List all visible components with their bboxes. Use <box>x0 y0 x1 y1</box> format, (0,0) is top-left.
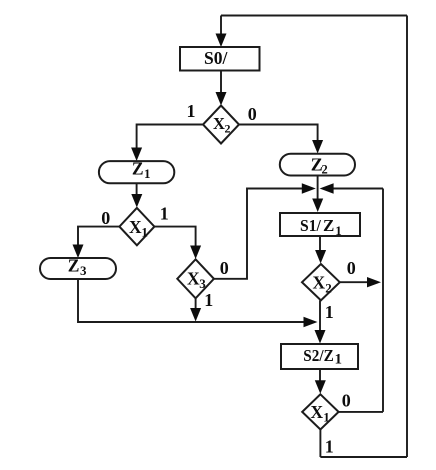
wire: entry into S0 <box>220 16 222 37</box>
svg-text:2: 2 <box>325 280 332 295</box>
output oval Z1 <box>99 161 174 183</box>
arrowhead into S2 <box>315 330 326 344</box>
arrowhead into decision X1 <box>131 194 142 208</box>
svg-text:1: 1 <box>204 290 213 310</box>
arrowhead into Z2 <box>312 140 323 154</box>
svg-text:0: 0 <box>220 258 229 278</box>
wire: X2 branch 1 to Z1 <box>137 125 203 151</box>
svg-text:3: 3 <box>80 263 87 278</box>
decision diamond X2 lower <box>302 264 340 300</box>
svg-text:1: 1 <box>335 223 342 238</box>
svg-text:2: 2 <box>225 122 231 136</box>
svg-text:2: 2 <box>322 163 328 177</box>
svg-text:1: 1 <box>160 204 169 224</box>
svg-text:0: 0 <box>342 391 351 411</box>
svg-text:Z: Z <box>132 159 144 179</box>
wire: X1 branch 0 to right join <box>339 411 383 413</box>
svg-text:S0/: S0/ <box>204 48 228 68</box>
svg-text:0: 0 <box>248 104 257 124</box>
wire: right join horizontal <box>332 188 383 190</box>
svg-text:1: 1 <box>187 101 196 121</box>
arrowhead right join pointing left <box>320 183 334 193</box>
svg-text:Z: Z <box>323 216 334 235</box>
svg-text:X: X <box>213 114 225 133</box>
wire: X1 branch 1 to X3 decision <box>154 227 195 248</box>
arrowhead left join pointing right <box>302 183 316 193</box>
state box S1 <box>280 213 360 236</box>
svg-text:0: 0 <box>101 208 110 228</box>
svg-text:Z: Z <box>68 256 80 276</box>
arrowhead into Z3 <box>73 245 84 259</box>
arrowhead into decision X2 lower <box>315 250 326 264</box>
decision diamond X1 lower <box>302 394 338 429</box>
wire: X1 bottom exit down <box>319 430 321 458</box>
output oval Z3 <box>40 258 116 279</box>
svg-text:X: X <box>129 217 142 237</box>
svg-text:1: 1 <box>323 409 330 424</box>
decision diamond X1 mid <box>119 208 154 245</box>
wire: S1 to X2 decision <box>319 236 321 252</box>
svg-text:S1/: S1/ <box>300 216 321 235</box>
arrowhead into Z1 <box>131 148 142 162</box>
arrowhead into S0 <box>216 34 227 48</box>
state box S2 <box>281 344 358 369</box>
wire: feedback right vertical <box>406 16 408 458</box>
wire: Z2 down to S1 <box>317 176 319 201</box>
wire: X2 branch 0 right <box>340 281 369 283</box>
svg-text:X: X <box>313 273 326 293</box>
svg-text:X: X <box>311 402 324 422</box>
svg-text:1: 1 <box>325 302 334 322</box>
decision diamond X2 top <box>203 106 239 144</box>
wire: Z1 to X1 decision <box>136 183 138 197</box>
svg-text:1: 1 <box>325 437 334 457</box>
arrowhead into decision X1 lower <box>315 380 326 394</box>
wire: X1 branch 0 to Z3 <box>78 227 119 247</box>
arrowhead into decision X2 top <box>216 92 227 106</box>
svg-text:3: 3 <box>199 276 206 291</box>
wire: X3 branch 0 up to join <box>214 189 303 279</box>
wire: feedback top horizontal <box>221 15 407 17</box>
wire: X2 branch 1 to S2 <box>319 300 321 332</box>
output oval Z2 <box>280 154 355 176</box>
wire: right join vertical x=383 <box>382 189 384 412</box>
svg-text:X: X <box>187 268 200 288</box>
svg-text:S2/Z: S2/Z <box>303 346 334 365</box>
arrowhead X2 branch 0 into vertical <box>367 277 381 287</box>
wire: S0 to X2 decision <box>220 71 222 95</box>
arrowhead into decision X3 <box>190 246 201 260</box>
wire: S2 to X1 decision <box>319 369 321 382</box>
wire: Z3 down to merge bus <box>78 279 305 322</box>
wire: X3 branch 1 down <box>195 298 197 310</box>
arrowhead into S1 <box>312 199 323 213</box>
svg-text:1: 1 <box>335 352 343 368</box>
arrowhead merge bus pointing right <box>304 317 318 327</box>
wire: feedback bottom horizontal <box>320 456 407 458</box>
arrowhead X3 branch 1 into bus <box>190 308 201 322</box>
svg-text:1: 1 <box>144 166 151 181</box>
wire: X2 branch 0 to Z2 <box>239 125 318 143</box>
decision diamond X3 <box>177 259 214 298</box>
svg-text:1: 1 <box>141 225 148 240</box>
svg-text:0: 0 <box>347 258 356 278</box>
state box S0 <box>180 47 260 71</box>
